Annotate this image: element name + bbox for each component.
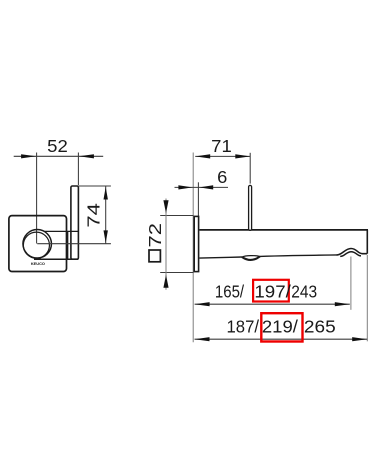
svg-text:KEUCO: KEUCO <box>31 261 45 266</box>
svg-text:243: 243 <box>291 281 317 301</box>
svg-text:265: 265 <box>304 316 336 336</box>
svg-text:165/: 165/ <box>215 281 244 301</box>
svg-text:6: 6 <box>217 167 227 187</box>
svg-text:74: 74 <box>84 203 104 228</box>
svg-text:219/: 219/ <box>262 316 298 336</box>
svg-text:187/: 187/ <box>227 316 260 336</box>
svg-text:72: 72 <box>145 223 165 248</box>
svg-text:52: 52 <box>47 136 68 156</box>
svg-text:197/: 197/ <box>254 281 291 301</box>
svg-text:71: 71 <box>211 136 232 156</box>
